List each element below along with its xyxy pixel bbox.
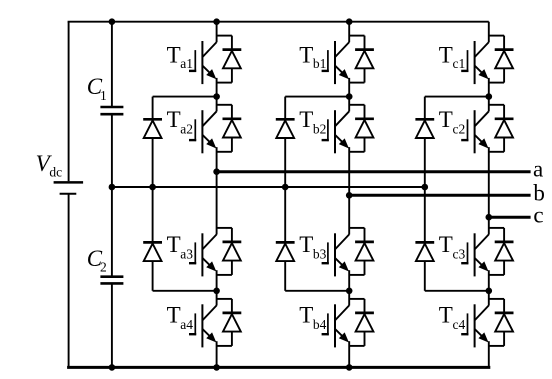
svg-text:a1: a1 xyxy=(180,56,193,71)
wire left branch lower xyxy=(68,194,70,368)
wire capacitor branch upper xyxy=(111,22,113,107)
svg-text:T: T xyxy=(299,107,313,132)
leg a emitter wire Ta3 xyxy=(216,270,218,305)
svg-text:T: T xyxy=(299,232,313,257)
wire clamp upper branch a xyxy=(152,97,154,187)
top DC+ rail xyxy=(68,21,489,23)
leg b collector wire Tb2 xyxy=(348,97,350,112)
svg-text:T: T xyxy=(167,42,181,67)
leg b emitter wire Tb4 xyxy=(348,341,350,367)
wire Ta1 bottom tee xyxy=(217,82,232,84)
phase line a xyxy=(217,170,531,173)
wire diode Da4 branch xyxy=(231,299,233,346)
wire Ta2 top tee xyxy=(217,104,232,106)
node neutral / clamp b xyxy=(282,184,289,191)
node Tc3-Tc4 junction xyxy=(486,288,493,295)
wire diode Dc4 branch xyxy=(503,299,505,346)
antiparallel diode Da1 xyxy=(223,50,242,69)
bottom DC- rail xyxy=(67,366,490,369)
svg-text:b3: b3 xyxy=(313,246,327,261)
node top rail / leg b xyxy=(346,18,353,25)
svg-text:T: T xyxy=(439,42,453,67)
wire Tb4 bottom tee xyxy=(349,345,364,347)
wire Ta3 bottom tee xyxy=(217,274,232,276)
svg-text:T: T xyxy=(167,107,181,132)
antiparallel diode Dc4 xyxy=(495,313,514,332)
wire Tc2 bottom tee xyxy=(489,151,504,153)
leg a emitter wire Ta2 down through output crossings xyxy=(216,147,218,234)
node phase a output xyxy=(213,168,220,175)
svg-text:b1: b1 xyxy=(313,56,327,71)
svg-text:c2: c2 xyxy=(453,121,466,136)
IGBT Tc4 xyxy=(461,304,489,347)
svg-text:1: 1 xyxy=(100,88,107,103)
phase line b xyxy=(349,194,530,197)
wire clamp lower branch b xyxy=(284,187,286,291)
wire Tb1 bottom tee xyxy=(349,82,364,84)
wire Tc3 top tee xyxy=(489,227,504,229)
wire capacitor branch middle xyxy=(111,114,113,277)
leg b emitter wire Tb3 xyxy=(348,270,350,305)
node neutral / clamp c xyxy=(422,184,429,191)
svg-text:a3: a3 xyxy=(180,246,193,261)
antiparallel diode Db2 xyxy=(355,119,374,138)
leg a collector wire Ta1 xyxy=(216,22,218,43)
leg c collector wire Tc2 xyxy=(488,97,490,112)
wire Tb3 top tee xyxy=(349,227,364,229)
svg-text:c: c xyxy=(533,203,543,228)
node Tb1-Tb2 junction xyxy=(346,93,353,100)
svg-text:c3: c3 xyxy=(453,246,466,261)
wire Tc4 bottom tee xyxy=(489,345,504,347)
clamp diode lower leg a xyxy=(143,242,162,261)
phase line c xyxy=(489,216,531,219)
wire Ta2 bottom tee xyxy=(217,151,232,153)
leg a emitter wire Ta1 xyxy=(216,78,218,97)
svg-text:T: T xyxy=(167,232,181,257)
svg-text:T: T xyxy=(299,42,313,67)
IGBT Tb2 xyxy=(322,110,350,153)
wire diode Dc2 branch xyxy=(503,105,505,152)
IGBT Tb3 xyxy=(322,233,350,276)
leg b emitter wire Tb1 xyxy=(348,78,350,97)
wire junction Tc1-Tc2 to clamp xyxy=(425,96,489,98)
wire clamp upper branch c xyxy=(424,97,426,187)
wire clamp upper branch b xyxy=(284,97,286,187)
svg-text:a4: a4 xyxy=(180,317,193,332)
clamp diode lower leg c xyxy=(415,242,434,261)
wire diode Db1 branch xyxy=(364,36,366,83)
antiparallel diode Da2 xyxy=(223,119,242,138)
wire capacitor branch lower xyxy=(111,283,113,367)
wire Ta4 top tee xyxy=(217,298,232,300)
svg-text:2: 2 xyxy=(100,260,107,275)
wire diode Dc1 branch xyxy=(503,36,505,83)
wire diode Da2 branch xyxy=(231,105,233,152)
IGBT Tb1 xyxy=(322,41,350,84)
wire Tc1 top tee xyxy=(489,35,504,37)
leg c emitter wire Tc2 down through output crossings xyxy=(488,147,490,234)
wire junction Ta3-Ta4 to clamp xyxy=(153,290,217,292)
wire Tc4 top tee xyxy=(489,298,504,300)
svg-text:T: T xyxy=(299,302,313,327)
leg c collector wire Tc1 xyxy=(488,22,490,43)
node phase b output xyxy=(346,192,353,199)
wire Ta3 top tee xyxy=(217,227,232,229)
wire left branch upper xyxy=(68,22,70,182)
node bottom rail / capacitor branch xyxy=(109,364,116,371)
antiparallel diode Db3 xyxy=(355,242,374,261)
antiparallel diode Dc3 xyxy=(495,242,514,261)
battery Vdc positive plate xyxy=(54,181,84,184)
IGBT Ta4 xyxy=(189,304,217,347)
wire Tc2 top tee xyxy=(489,104,504,106)
leg b collector wire Tb1 xyxy=(348,22,350,43)
clamp diode upper leg c xyxy=(415,119,434,138)
wire Tb4 top tee xyxy=(349,298,364,300)
antiparallel diode Dc2 xyxy=(495,119,514,138)
IGBT Tc3 xyxy=(461,233,489,276)
wire junction Tc3-Tc4 to clamp xyxy=(425,290,489,292)
node Tb3-Tb4 junction xyxy=(346,288,353,295)
node top rail / capacitor branch xyxy=(109,18,116,25)
neutral rail from capacitor midpoint xyxy=(112,186,425,188)
wire junction Tb3-Tb4 to clamp xyxy=(285,290,349,292)
wire Tb1 top tee xyxy=(349,35,364,37)
node bottom rail / leg b xyxy=(346,364,353,371)
wire Ta1 top tee xyxy=(217,35,232,37)
wire clamp lower branch a xyxy=(152,187,154,291)
IGBT Tc1 xyxy=(461,41,489,84)
svg-text:a: a xyxy=(533,157,543,182)
node Ta3-Ta4 junction xyxy=(213,288,220,295)
leg c emitter wire Tc3 xyxy=(488,270,490,305)
node phase c output xyxy=(486,214,493,221)
leg c emitter wire Tc1 xyxy=(488,78,490,97)
svg-text:b4: b4 xyxy=(313,317,327,332)
svg-text:T: T xyxy=(439,302,453,327)
IGBT Ta1 xyxy=(189,41,217,84)
node top rail / leg a xyxy=(213,18,220,25)
capacitor C2 xyxy=(100,277,123,284)
node Tc1-Tc2 junction xyxy=(486,93,493,100)
node bottom rail / leg a xyxy=(213,364,220,371)
wire diode Db4 branch xyxy=(364,299,366,346)
node neutral / clamp a xyxy=(149,184,156,191)
wire Tb3 bottom tee xyxy=(349,274,364,276)
leg c emitter wire Tc4 xyxy=(488,341,490,367)
leg b emitter wire Tb2 down through output crossings xyxy=(348,147,350,234)
antiparallel diode Da3 xyxy=(223,242,242,261)
leg a collector wire Ta2 xyxy=(216,97,218,112)
wire diode Dc3 branch xyxy=(503,228,505,275)
wire junction Tb1-Tb2 to clamp xyxy=(285,96,349,98)
node Ta1-Ta2 junction xyxy=(213,93,220,100)
svg-text:dc: dc xyxy=(49,164,62,179)
wire Tc3 bottom tee xyxy=(489,274,504,276)
capacitor C1 xyxy=(100,107,123,114)
IGBT Tc2 xyxy=(461,110,489,153)
clamp diode upper leg a xyxy=(143,119,162,138)
wire clamp lower branch c xyxy=(424,187,426,291)
antiparallel diode Db4 xyxy=(355,313,374,332)
wire Tc1 bottom tee xyxy=(489,82,504,84)
wire Ta4 bottom tee xyxy=(217,345,232,347)
node neutral / capacitor midpoint xyxy=(109,184,116,191)
svg-text:b2: b2 xyxy=(313,121,327,136)
IGBT Ta3 xyxy=(189,233,217,276)
clamp diode upper leg b xyxy=(276,119,295,138)
antiparallel diode Db1 xyxy=(355,50,374,69)
battery Vdc negative plate xyxy=(60,193,77,195)
svg-text:T: T xyxy=(439,232,453,257)
svg-text:T: T xyxy=(167,302,181,327)
wire Tb2 bottom tee xyxy=(349,151,364,153)
wire diode Da1 branch xyxy=(231,36,233,83)
wire Tb2 top tee xyxy=(349,104,364,106)
wire diode Db2 branch xyxy=(364,105,366,152)
leg a emitter wire Ta4 xyxy=(216,341,218,367)
svg-text:c4: c4 xyxy=(453,317,466,332)
wire diode Db3 branch xyxy=(364,228,366,275)
antiparallel diode Dc1 xyxy=(495,50,514,69)
IGBT Ta2 xyxy=(189,110,217,153)
antiparallel diode Da4 xyxy=(223,313,242,332)
svg-text:c1: c1 xyxy=(453,56,466,71)
IGBT Tb4 xyxy=(322,304,350,347)
wire diode Da3 branch xyxy=(231,228,233,275)
wire junction Ta1-Ta2 to clamp xyxy=(153,96,217,98)
clamp diode lower leg b xyxy=(276,242,295,261)
svg-text:T: T xyxy=(439,107,453,132)
svg-text:a2: a2 xyxy=(180,121,193,136)
